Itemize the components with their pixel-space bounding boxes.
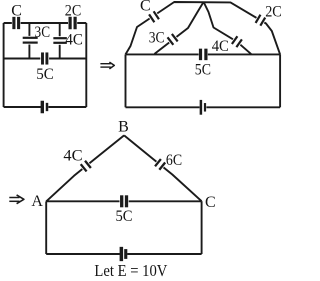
circuit 3 wire A to B with 4C [46,135,124,201]
double arrow between circuit 1 and circuit 2 [100,63,110,65]
capacitor 2C (circuit 1) [68,20,77,26]
svg-text:5C: 5C [116,208,133,225]
double arrow before circuit 3 [9,197,19,199]
circuit 2 rectangle right edge wire [279,54,281,107]
svg-text:B: B [118,118,129,135]
circuit 2 rectangle top edge wire [126,53,281,55]
capacitor C (circuit 2) [150,14,158,19]
svg-text:4C: 4C [63,147,82,164]
circuit 1 branch wire for 3C [28,23,30,59]
capacitor 5C (circuit 3) [120,199,129,205]
svg-text:6C: 6C [166,152,182,169]
circuit 2 inner-left wire with 3C [155,2,204,54]
svg-text:A: A [31,193,43,210]
capacitor 4C (circuit 3) [82,163,89,169]
battery E (circuit 3) [120,251,127,257]
battery E (circuit 1) [41,104,49,110]
svg-text:4C: 4C [212,38,229,55]
circuit 3 wire A to C with 5C [46,200,201,202]
svg-text:3C: 3C [35,24,51,41]
svg-text:C: C [205,194,216,211]
circuit 2 rectangle left edge wire [125,54,127,107]
capacitor C (circuit 1) [12,20,21,26]
circuit 3 right edge wire below C [201,201,203,254]
svg-text:2C: 2C [265,3,282,20]
battery E (circuit 2) [200,104,207,110]
svg-text:3C: 3C [149,30,165,47]
svg-text:5C: 5C [36,66,54,83]
circuit 3 wire B to C with 6C [124,135,202,201]
capacitor 6C (circuit 3) [157,162,164,168]
circuit 1 outer rectangle left edge wire [3,23,5,107]
circuit 3 left edge wire below A [45,201,47,254]
svg-text:4C: 4C [65,31,83,48]
capacitor 4C (circuit 2) [233,39,241,44]
circuit 2 roof wire with C and 2C [126,2,281,54]
svg-text:Let E = 10V: Let E = 10V [94,261,167,280]
circuit 1 outer rectangle right edge wire [85,23,87,107]
circuit 2 rectangle bottom edge wire [126,106,281,108]
svg-text:C: C [140,0,151,14]
circuit 1 middle wire [4,58,87,60]
svg-text:C: C [11,3,22,20]
svg-text:5C: 5C [195,61,211,78]
circuit 1 top edge wire [4,22,87,24]
capacitor 4C (circuit 1) [57,36,63,45]
capacitor 5C (circuit 2) [199,52,208,58]
capacitor 2C (circuit 2) [256,18,264,23]
capacitor 5C (circuit 1) [40,56,49,62]
svg-text:2C: 2C [65,3,82,20]
circuit 2 inner-right wire with 4C [204,2,252,54]
circuit 1 branch wire for 4C [59,23,61,59]
capacitor 3C (circuit 1) [27,36,33,45]
circuit 3 bottom edge wire with battery [46,253,201,255]
capacitor 3C (circuit 2) [169,37,176,43]
circuit 1 bottom edge wire [4,106,87,108]
